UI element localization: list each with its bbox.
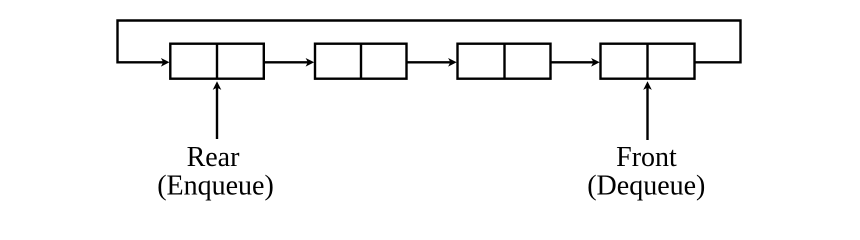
- svg-text:Front: Front: [616, 142, 677, 173]
- svg-text:(Dequeue): (Dequeue): [587, 171, 705, 202]
- svg-text:(Enqueue): (Enqueue): [157, 171, 274, 202]
- svg-text:Rear: Rear: [187, 142, 241, 173]
